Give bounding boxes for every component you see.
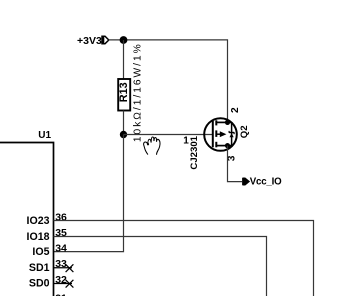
- pin 32 SD0 (no connect): [29, 274, 74, 290]
- drain connect: [216, 121, 231, 123]
- svg-text:36: 36: [55, 211, 67, 223]
- svg-text:SD0: SD0: [29, 278, 50, 290]
- wire +3V3 junction to R13 top: [123, 40, 125, 80]
- wire Q2 source to Vcc_IO: [228, 146, 243, 182]
- svg-text:10kΩ/1/16W/1%: 10kΩ/1/16W/1%: [133, 42, 144, 142]
- source connect: [216, 145, 231, 147]
- pin 35 IO18: [27, 227, 68, 243]
- wire net IO18: [54, 237, 267, 296]
- wire net IO23: [54, 221, 314, 296]
- cursor hand thumb blob: [147, 143, 149, 146]
- body diode: [229, 131, 234, 137]
- svg-text:+3V3: +3V3: [77, 35, 102, 47]
- svg-text:33: 33: [55, 258, 67, 270]
- pin 34 IO5: [32, 242, 67, 258]
- pin 33 SD1 (no connect): [29, 258, 74, 274]
- resistor R13: [118, 79, 130, 111]
- transistor Q2 (CJ2301 P-MOSFET): [204, 118, 237, 151]
- drain dot: [225, 120, 230, 125]
- source dot: [225, 143, 230, 148]
- svg-text:U1: U1: [38, 130, 51, 141]
- svg-text:34: 34: [55, 242, 67, 254]
- net port Vcc_IO: [243, 177, 282, 188]
- svg-text:SD1: SD1: [29, 262, 50, 274]
- svg-text:Vcc_IO: Vcc_IO: [250, 177, 282, 188]
- junction dot at gate net: [120, 131, 127, 138]
- IC U1 box: [0, 143, 54, 296]
- svg-text:CJ2301: CJ2301: [189, 135, 200, 169]
- svg-text:32: 32: [55, 274, 67, 286]
- svg-text:R13: R13: [118, 82, 130, 102]
- wire +3V3 to Q2 drain: [109, 40, 228, 123]
- svg-text:31: 31: [55, 292, 67, 296]
- wire gate junction down to pin 34: [54, 135, 124, 252]
- svg-text:IO18: IO18: [27, 231, 50, 243]
- svg-text:2: 2: [230, 107, 241, 113]
- svg-text:35: 35: [55, 227, 67, 239]
- wire R13 bottom to gate junction: [123, 111, 125, 135]
- wire junction to Q2 gate: [124, 134, 214, 136]
- svg-text:IO5: IO5: [32, 246, 49, 258]
- junction dot at +3V3 / R13: [120, 36, 128, 44]
- pin 36 IO23: [27, 211, 68, 227]
- gate bar: [212, 121, 214, 147]
- cursor hand icon: [144, 137, 160, 155]
- power flag +3V3: [77, 35, 109, 47]
- bulk arrow: [216, 133, 220, 135]
- channel segments: [215, 120, 217, 125]
- svg-text:Q2: Q2: [239, 125, 250, 138]
- svg-text:IO23: IO23: [27, 215, 50, 227]
- body line: [231, 122, 233, 145]
